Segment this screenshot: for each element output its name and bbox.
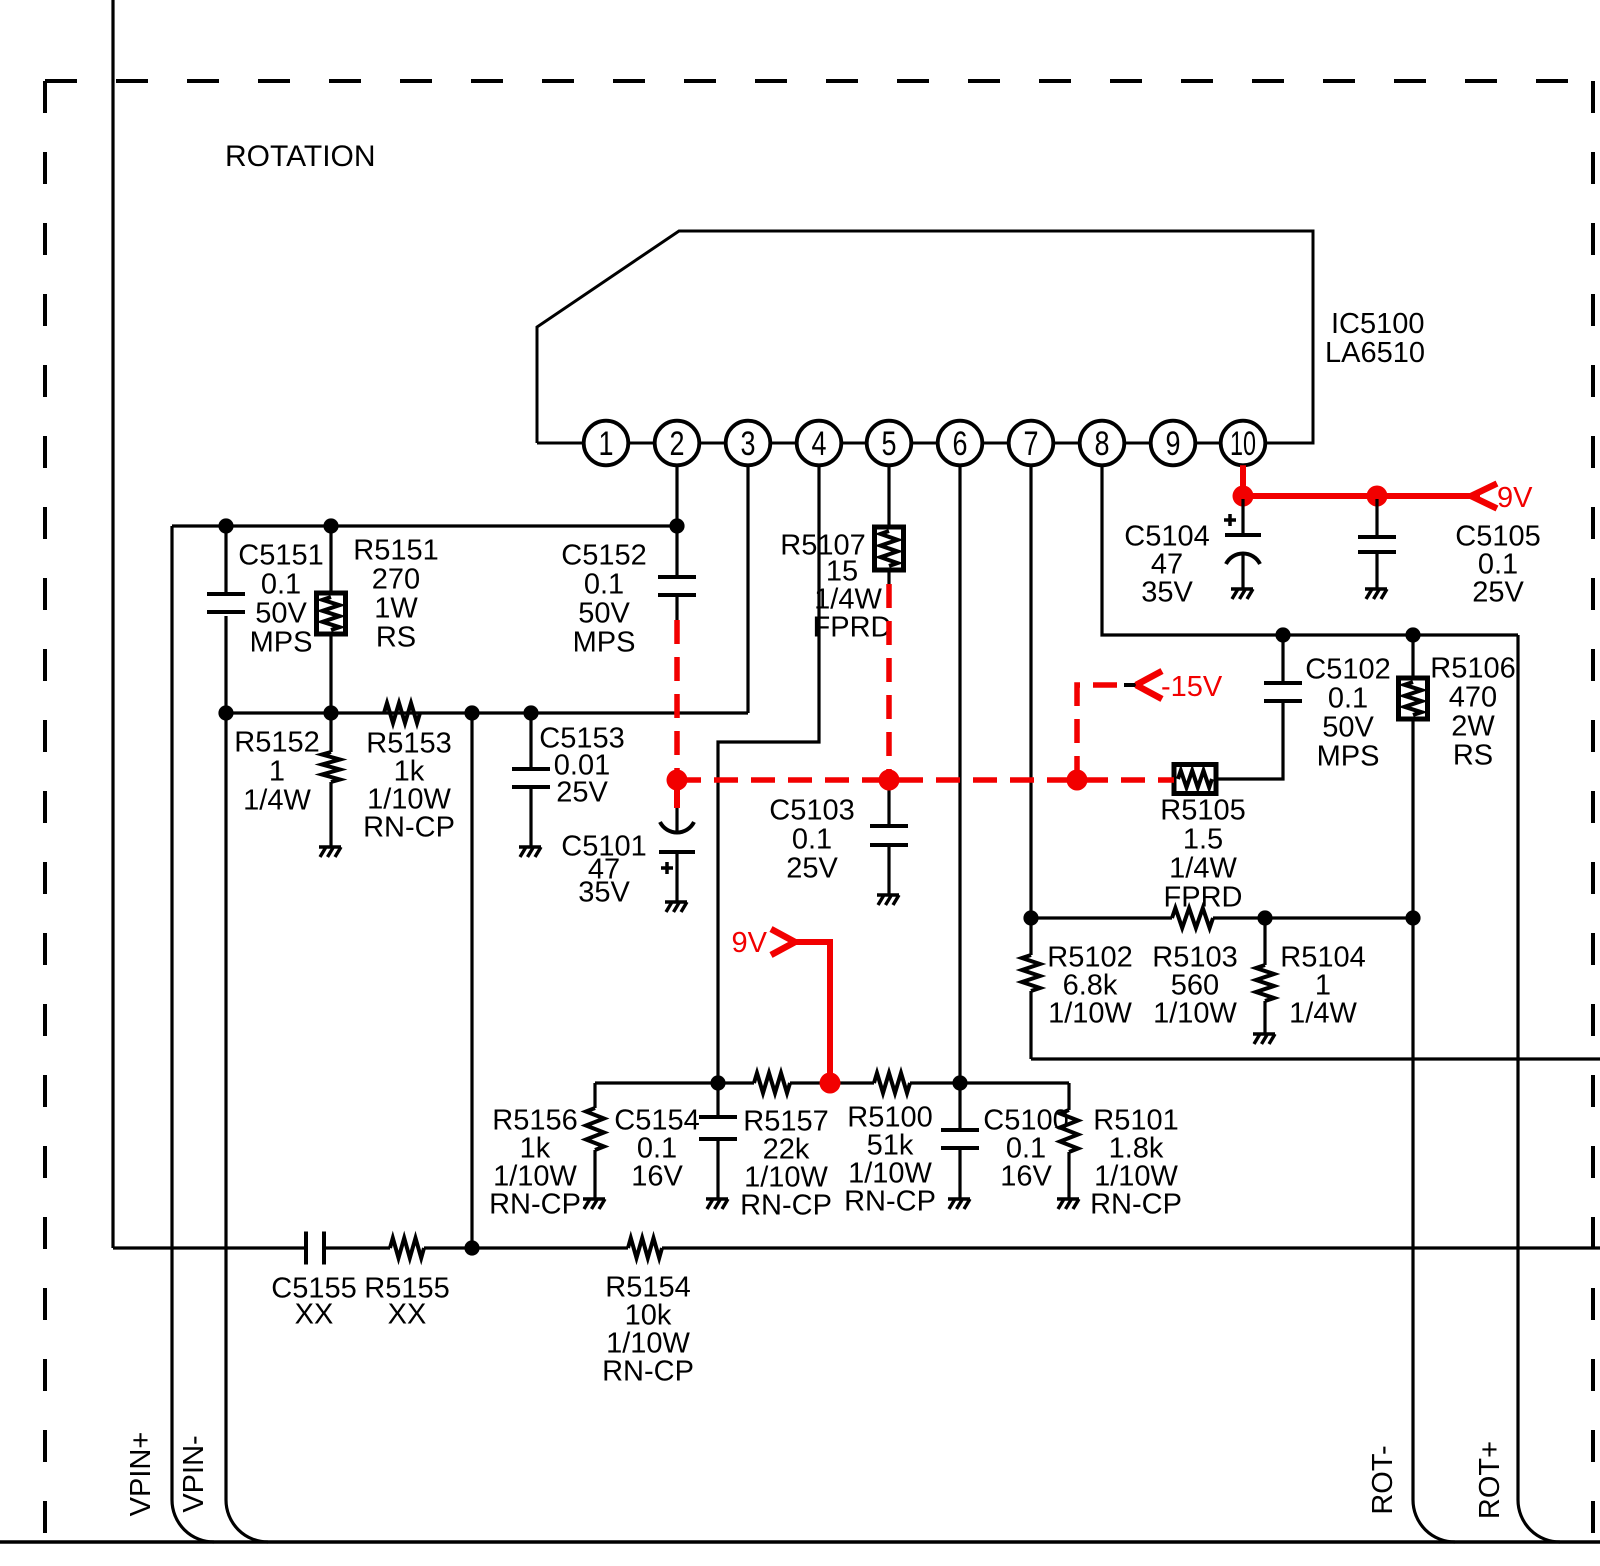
red junction node at (677,780) xyxy=(667,770,688,791)
ground under R5152 xyxy=(319,847,341,857)
R5103 value label xyxy=(1152,941,1237,1029)
svg-text:RN-CP: RN-CP xyxy=(489,1188,581,1220)
wire: VPIN- vertical (through C5151) curving into bottom border xyxy=(226,526,268,1542)
wire: pin 5 into R5107 xyxy=(887,465,890,527)
C5103 value label xyxy=(769,794,854,884)
label VPIN+ xyxy=(125,1432,157,1517)
ground under C5153 xyxy=(519,847,541,857)
svg-text:25V: 25V xyxy=(1472,576,1524,608)
IC5100 pin 3 circle xyxy=(726,421,771,466)
9V arrow (bottom) xyxy=(771,929,795,955)
svg-text:RN-CP: RN-CP xyxy=(602,1355,694,1387)
IC5100 pin 1 circle xyxy=(584,421,629,466)
svg-text:C5152: C5152 xyxy=(561,539,646,571)
red junction node on rail xyxy=(820,1073,841,1094)
wire: row y=1059 to right edge xyxy=(1031,1057,1600,1060)
capacitor C5155 (series) xyxy=(306,1232,324,1265)
C5155 value label xyxy=(271,1272,356,1330)
wire: pin 4 jog down to rail and C5154 xyxy=(718,465,819,1199)
svg-text:16V: 16V xyxy=(1000,1160,1052,1192)
wire: long vertical net at x=113 to bottom row xyxy=(111,0,114,1248)
resistor R5103 (in row) xyxy=(1172,908,1213,928)
resistor R5151 (fusible, boxed) xyxy=(317,526,346,713)
red dashed wire: C5152 to node at y=780 xyxy=(674,620,680,780)
R5100 value label xyxy=(844,1101,936,1217)
IC5100 pin 10 circle xyxy=(1221,421,1266,466)
capacitor C5104 (electrolytic) xyxy=(1225,499,1261,589)
wire: vertical net x=472 from lower bus to bottom row xyxy=(470,713,473,1248)
svg-text:C5103: C5103 xyxy=(769,794,854,826)
resistor R5154 (series) xyxy=(628,1238,662,1258)
svg-text:RN-CP: RN-CP xyxy=(363,811,455,843)
junction node at (1283,635) xyxy=(1275,627,1290,642)
svg-text:ROT+: ROT+ xyxy=(1474,1441,1506,1519)
svg-text:2: 2 xyxy=(670,425,685,463)
9V label (top right) xyxy=(1497,482,1533,514)
svg-text:35V: 35V xyxy=(1141,576,1193,608)
svg-text:2W: 2W xyxy=(1451,710,1495,742)
svg-text:XX: XX xyxy=(388,1298,427,1330)
svg-text:R5151: R5151 xyxy=(353,534,438,566)
LA6510 label xyxy=(1325,337,1425,369)
capacitor C5101 (electrolytic) xyxy=(659,780,695,902)
svg-text:4: 4 xyxy=(812,425,827,463)
svg-text:35V: 35V xyxy=(578,876,630,908)
svg-text:6: 6 xyxy=(953,425,968,463)
svg-text:C5102: C5102 xyxy=(1305,653,1390,685)
junction node at (472,713) xyxy=(464,705,479,720)
svg-text:1.5: 1.5 xyxy=(1183,823,1223,855)
svg-text:1/4W: 1/4W xyxy=(1289,997,1357,1029)
svg-text:FPRD: FPRD xyxy=(813,611,892,643)
svg-text:25V: 25V xyxy=(556,776,608,808)
black stub before -15V arrow xyxy=(1124,683,1137,687)
svg-text:-15V: -15V xyxy=(1161,671,1223,703)
junction node at (226,526) xyxy=(218,518,233,533)
capacitor C5100 xyxy=(941,1130,979,1148)
wire: lower bus y=715 xyxy=(226,711,748,714)
svg-text:XX: XX xyxy=(295,1298,334,1330)
svg-text:7: 7 xyxy=(1024,425,1039,463)
svg-text:RS: RS xyxy=(1453,739,1493,771)
svg-text:VPIN-: VPIN- xyxy=(178,1435,210,1512)
svg-text:16V: 16V xyxy=(631,1160,683,1192)
svg-text:RN-CP: RN-CP xyxy=(1090,1188,1182,1220)
svg-text:0.1: 0.1 xyxy=(261,568,301,600)
R5106 value label xyxy=(1430,652,1515,771)
solid sheet bottom border xyxy=(0,1540,1600,1544)
IC5100 pin 4 circle xyxy=(797,421,842,466)
red junction node at pin10/C5104 xyxy=(1233,486,1254,507)
svg-text:MPS: MPS xyxy=(250,626,313,658)
svg-text:1/4W: 1/4W xyxy=(1169,852,1237,884)
svg-text:50V: 50V xyxy=(1322,711,1374,743)
junction node at (331,713) xyxy=(323,705,338,720)
junction node at (1413,918) xyxy=(1405,910,1420,925)
svg-text:0.1: 0.1 xyxy=(584,568,624,600)
R5153 value label xyxy=(363,727,455,843)
svg-text:ROT-: ROT- xyxy=(1367,1445,1399,1514)
svg-text:VPIN+: VPIN+ xyxy=(125,1432,157,1517)
wire: bottom row y=1248 xyxy=(113,1246,1600,1249)
capacitor C5154 xyxy=(699,1117,737,1139)
junction node at (1265,918) xyxy=(1257,910,1272,925)
svg-text:R5106: R5106 xyxy=(1430,652,1515,684)
junction node at (1413,635) xyxy=(1405,627,1420,642)
wire: pin 3 down to lower bus xyxy=(746,465,749,713)
svg-text:RS: RS xyxy=(376,621,416,653)
C5105 value label xyxy=(1455,520,1540,608)
op-amp/driver IC5100 body outline xyxy=(537,231,1313,443)
C5151 value label xyxy=(238,539,323,658)
R5102 value label xyxy=(1047,941,1132,1029)
R5157 value label xyxy=(740,1105,832,1221)
9V arrow (top right) xyxy=(1471,484,1497,509)
capacitor C5103 xyxy=(870,780,908,895)
svg-text:1/4W: 1/4W xyxy=(243,784,311,816)
junction node at (718,1083) xyxy=(710,1075,725,1090)
svg-text:10: 10 xyxy=(1230,425,1256,463)
IC5100 pin 2 circle xyxy=(655,421,700,466)
resistor R5105 (fusible, boxed) xyxy=(1174,765,1216,794)
svg-text:1W: 1W xyxy=(374,592,418,624)
R5154 value label xyxy=(602,1271,694,1387)
wire: top bus y=526 xyxy=(172,524,677,527)
red dashed net: y=780 horizontal with -15V stub xyxy=(677,685,1174,780)
ground under C5101 xyxy=(665,902,687,912)
svg-text:1: 1 xyxy=(599,425,614,463)
capacitor C5152 xyxy=(658,526,696,620)
svg-text:MPS: MPS xyxy=(573,626,636,658)
resistor R5152 xyxy=(322,713,340,847)
red junction node at (889,780) xyxy=(879,770,900,791)
C5104 value label xyxy=(1124,520,1209,608)
wire: below R5107 xyxy=(887,570,890,584)
svg-text:1/10W: 1/10W xyxy=(1153,997,1237,1029)
svg-text:ROTATION: ROTATION xyxy=(225,140,376,173)
ground under C5154 xyxy=(706,1199,728,1209)
svg-text:5: 5 xyxy=(882,425,897,463)
R5156 value label xyxy=(489,1104,581,1220)
wire: VPIN+ vertical from top bus with corner into bottom border xyxy=(172,526,214,1542)
ground under R5156 xyxy=(583,1199,605,1209)
resistor R5102 xyxy=(1022,918,1040,1059)
svg-text:1/10W: 1/10W xyxy=(1048,997,1132,1029)
ground under C5104 xyxy=(1231,589,1253,599)
C5100 value label xyxy=(983,1104,1068,1192)
red junction node at C5105 xyxy=(1367,486,1388,507)
svg-text:0.1: 0.1 xyxy=(792,823,832,855)
red dashed wire: R5107 to node y=780 xyxy=(886,584,892,780)
svg-text:270: 270 xyxy=(372,563,420,595)
ground under R5104 xyxy=(1253,1034,1275,1044)
wire: ROT+ vertical with corner into bottom border xyxy=(1518,635,1560,1542)
svg-text:C5151: C5151 xyxy=(238,539,323,571)
resistor R5104 xyxy=(1256,918,1274,1034)
title ROTATION xyxy=(225,140,376,173)
junction node at (531,713) xyxy=(523,705,538,720)
capacitor C5153 xyxy=(512,713,550,847)
junction node at (472,1248) xyxy=(464,1240,479,1255)
C5152 value label xyxy=(561,539,646,658)
R5152 value label xyxy=(234,726,319,816)
junction node at (331,526) xyxy=(323,518,338,533)
-15V arrow xyxy=(1136,671,1162,699)
9V label (bottom) xyxy=(732,927,768,959)
wire: R5106 down / ROT- vertical into bottom border xyxy=(1413,719,1455,1542)
R5107 value label xyxy=(780,529,891,643)
IC5100 pin 5 circle xyxy=(867,421,912,466)
svg-text:MPS: MPS xyxy=(1317,740,1380,772)
resistor R5156 xyxy=(586,1083,604,1199)
svg-text:1: 1 xyxy=(269,755,285,787)
capacitor C5105 xyxy=(1358,499,1396,589)
IC5100 pin 9 circle xyxy=(1151,421,1196,466)
wire: node row y=918 xyxy=(1031,916,1413,919)
IC5100 pin 7 circle xyxy=(1009,421,1054,466)
label ROT- xyxy=(1367,1445,1399,1514)
resistor R5101 xyxy=(1060,1083,1078,1199)
wire: pin 6 down to rail and C5100 xyxy=(958,465,961,1199)
R5155 value label xyxy=(364,1272,449,1330)
svg-text:9V: 9V xyxy=(1497,482,1533,514)
resistor R5107 (fusible, boxed) xyxy=(875,527,904,570)
junction node at (677,526) xyxy=(669,518,684,533)
wire: pin 7 down to node row 918 xyxy=(1029,465,1032,918)
svg-text:25V: 25V xyxy=(786,852,838,884)
wire: pin 2 down to top bus xyxy=(675,465,678,526)
ground under R5101 xyxy=(1057,1199,1079,1209)
R5101 value label xyxy=(1090,1104,1182,1220)
svg-text:50V: 50V xyxy=(255,597,307,629)
red junction node at (1077,780) xyxy=(1067,770,1088,791)
wire: pin 8 right to ROT+ drop xyxy=(1102,465,1518,635)
capacitor C5102 xyxy=(1216,635,1302,779)
C5101 plus sign xyxy=(661,862,673,874)
svg-text:0.1: 0.1 xyxy=(1328,682,1368,714)
C5104 plus sign xyxy=(1224,514,1236,526)
resistor R5100 (in rail) xyxy=(874,1073,910,1093)
ground under C5103 xyxy=(877,895,899,905)
svg-text:LA6510: LA6510 xyxy=(1325,337,1425,369)
resistor R5106 (fusible, boxed) xyxy=(1399,635,1428,719)
C5153 value label xyxy=(539,722,624,808)
junction node at (226,713) xyxy=(218,705,233,720)
junction node at (1031,918) xyxy=(1023,910,1038,925)
-15V label xyxy=(1161,671,1223,703)
resistor R5155 (series) xyxy=(390,1238,424,1258)
R5151 value label xyxy=(353,534,438,653)
IC5100 pin 6 circle xyxy=(938,421,983,466)
label VPIN- xyxy=(178,1435,210,1512)
svg-text:RN-CP: RN-CP xyxy=(740,1189,832,1221)
svg-text:9V: 9V xyxy=(732,927,768,959)
svg-text:470: 470 xyxy=(1449,681,1497,713)
IC5100 pin 8 circle xyxy=(1080,421,1125,466)
wire: lower rail y=1083 xyxy=(595,1081,1069,1084)
resistor R5157 (in rail) xyxy=(754,1073,790,1093)
C5154 value label xyxy=(614,1104,699,1192)
svg-text:9: 9 xyxy=(1166,425,1181,463)
label ROT+ xyxy=(1474,1441,1506,1519)
svg-text:R5105: R5105 xyxy=(1160,794,1245,826)
IC5100 label xyxy=(1331,308,1425,340)
svg-text:R5152: R5152 xyxy=(234,726,319,758)
svg-text:8: 8 xyxy=(1095,425,1110,463)
red wire: 9V feed into rail xyxy=(795,942,830,1083)
C5101 value label xyxy=(561,830,646,908)
red wire: pin 10 to 9V rail xyxy=(1243,465,1480,496)
R5104 value label xyxy=(1280,941,1365,1029)
svg-text:IC5100: IC5100 xyxy=(1331,308,1425,340)
C5102 value label xyxy=(1305,653,1390,772)
R5105 value label xyxy=(1160,794,1245,913)
svg-text:RN-CP: RN-CP xyxy=(844,1185,936,1217)
resistor R5153 (in lower bus) xyxy=(384,703,420,723)
svg-text:3: 3 xyxy=(741,425,756,463)
junction node at (960,1083) xyxy=(952,1075,967,1090)
ground under C5105 xyxy=(1365,589,1387,599)
ground under C5100 xyxy=(948,1199,970,1209)
svg-text:50V: 50V xyxy=(578,597,630,629)
capacitor C5151 xyxy=(207,594,245,612)
